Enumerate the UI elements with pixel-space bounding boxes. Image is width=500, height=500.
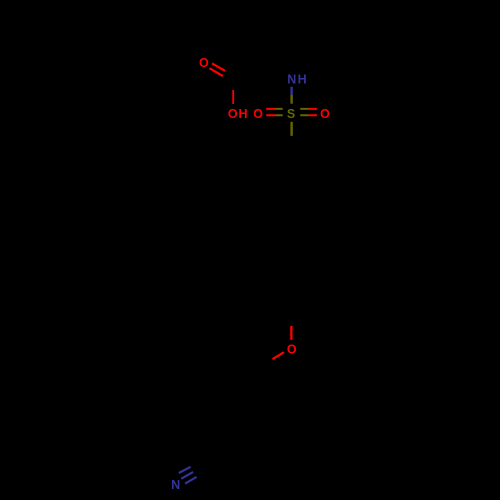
amine NH label: [287, 73, 306, 87]
carbonyl oxygen O (C=O) label: [199, 56, 209, 70]
S=O left double bond: [266, 109, 283, 115]
svg-text:O: O: [228, 107, 238, 121]
svg-text:N: N: [171, 478, 180, 492]
ether O-C bond lower-left red half: [273, 352, 285, 359]
S=O right double bond: [300, 109, 317, 115]
svg-text:O: O: [287, 343, 297, 357]
C=O double bond (red half-lines): [209, 63, 225, 76]
nitrile triple bond blue half-lines: [179, 467, 197, 484]
svg-text:S: S: [287, 107, 295, 121]
ether C-O bond upper red half: [290, 326, 292, 340]
svg-text:O: O: [253, 107, 263, 121]
N-S bond blue half: [290, 87, 292, 95]
N-S bond yellow half: [290, 95, 292, 104]
svg-text:O: O: [199, 56, 209, 70]
svg-text:H: H: [298, 73, 307, 87]
C-OH bond (red half-line): [232, 90, 234, 104]
svg-text:O: O: [320, 107, 330, 121]
S-C bond yellow half: [290, 122, 292, 136]
svg-text:H: H: [238, 107, 247, 121]
hydroxyl OH label: [228, 107, 248, 121]
svg-text:N: N: [287, 73, 296, 87]
